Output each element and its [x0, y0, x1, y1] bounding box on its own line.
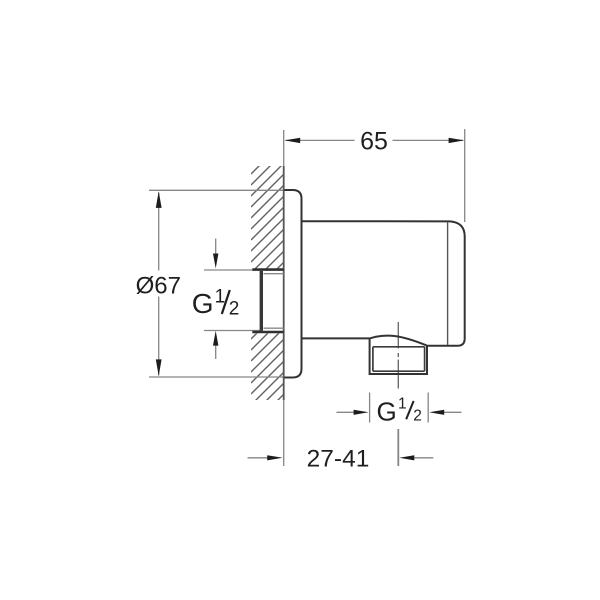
svg-text:2: 2: [413, 407, 422, 424]
svg-text:2: 2: [229, 298, 240, 319]
svg-text:65: 65: [360, 128, 388, 156]
svg-text:27-41: 27-41: [307, 446, 370, 473]
svg-text:1: 1: [398, 396, 407, 413]
svg-text:1: 1: [215, 287, 226, 308]
svg-text:Ø67: Ø67: [136, 273, 181, 300]
svg-text:G: G: [192, 288, 214, 319]
svg-text:G: G: [377, 397, 397, 427]
